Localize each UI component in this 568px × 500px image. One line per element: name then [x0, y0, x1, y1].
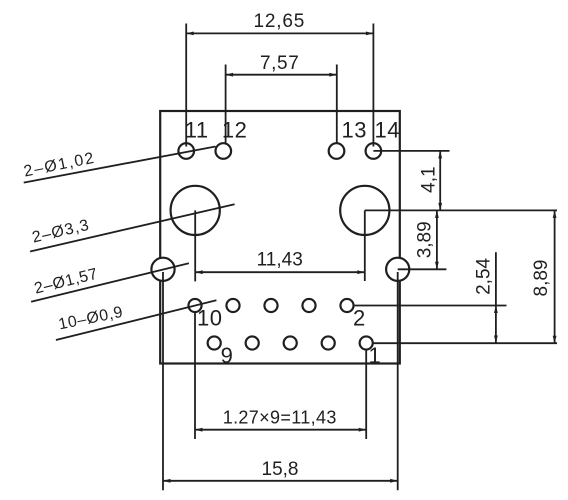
svg-text:1.27×9=11,43: 1.27×9=11,43 — [223, 408, 337, 428]
svg-text:8,89: 8,89 — [531, 260, 552, 297]
svg-text:11,43: 11,43 — [257, 250, 303, 271]
svg-text:12,65: 12,65 — [254, 11, 306, 32]
svg-text:2,54: 2,54 — [474, 257, 495, 294]
svg-text:10: 10 — [197, 305, 222, 330]
svg-text:3,89: 3,89 — [415, 221, 436, 258]
svg-text:9: 9 — [221, 343, 234, 368]
svg-text:13: 13 — [342, 117, 367, 142]
svg-text:11: 11 — [185, 117, 209, 142]
svg-text:1: 1 — [369, 343, 382, 368]
svg-text:2: 2 — [353, 305, 366, 330]
svg-text:4,1: 4,1 — [419, 166, 440, 192]
svg-text:14: 14 — [375, 117, 400, 142]
svg-text:7,57: 7,57 — [260, 53, 299, 74]
svg-text:15,8: 15,8 — [262, 459, 299, 480]
svg-text:12: 12 — [222, 117, 247, 142]
